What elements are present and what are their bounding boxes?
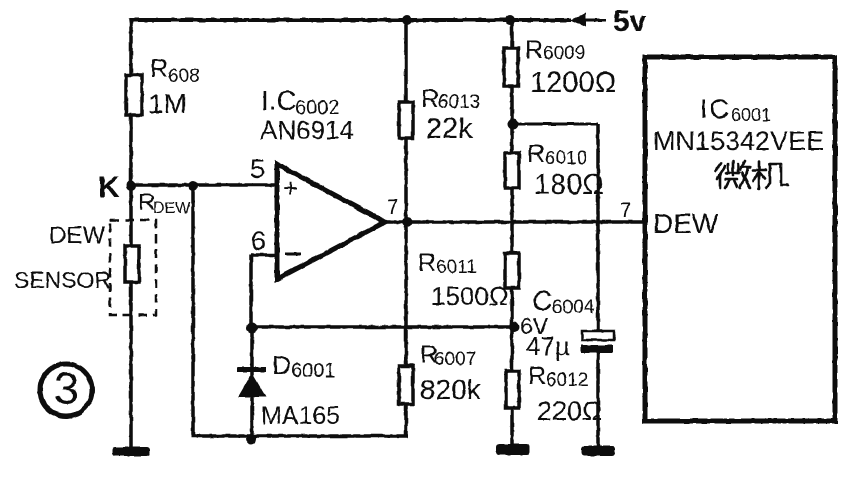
svg-text:5v: 5v <box>613 5 647 38</box>
svg-text:47µ: 47µ <box>526 331 570 361</box>
svg-text:3: 3 <box>54 363 79 414</box>
svg-text:220Ω: 220Ω <box>537 396 602 426</box>
svg-text:R: R <box>525 36 543 64</box>
svg-text:6: 6 <box>251 226 266 256</box>
svg-text:7: 7 <box>620 199 632 222</box>
svg-text:+: + <box>283 173 298 203</box>
svg-text:820k: 820k <box>420 374 482 405</box>
svg-text:1200Ω: 1200Ω <box>530 67 616 99</box>
svg-text:I.C: I.C <box>261 85 297 116</box>
svg-text:6004: 6004 <box>552 297 595 318</box>
svg-text:6009: 6009 <box>543 43 585 64</box>
svg-text:IC: IC <box>700 94 731 124</box>
svg-text:D: D <box>272 350 291 380</box>
svg-text:MN15342VEE: MN15342VEE <box>653 126 824 156</box>
svg-text:C: C <box>532 285 552 316</box>
svg-text:6001: 6001 <box>731 105 771 125</box>
svg-text:DEW: DEW <box>153 200 191 217</box>
svg-text:6012: 6012 <box>546 370 588 391</box>
svg-text:1500Ω: 1500Ω <box>431 281 508 311</box>
svg-text:22k: 22k <box>426 113 473 145</box>
svg-text:R: R <box>528 362 546 390</box>
svg-text:MA165: MA165 <box>261 402 340 430</box>
svg-text:R: R <box>527 140 545 168</box>
svg-text:R: R <box>421 85 439 113</box>
svg-text:1M: 1M <box>148 88 187 119</box>
svg-text:R: R <box>150 55 168 83</box>
svg-text:K: K <box>98 171 120 204</box>
svg-text:6013: 6013 <box>438 92 480 113</box>
svg-text:180Ω: 180Ω <box>534 169 604 201</box>
svg-text:DEW: DEW <box>49 222 105 249</box>
svg-text:5: 5 <box>250 154 265 184</box>
svg-text:6007: 6007 <box>434 349 476 370</box>
svg-text:6010: 6010 <box>545 148 587 169</box>
svg-text:608: 608 <box>168 66 200 87</box>
svg-text:6001: 6001 <box>291 360 336 382</box>
svg-text:7: 7 <box>387 196 399 219</box>
svg-text:SENSOR: SENSOR <box>14 267 111 293</box>
svg-text:AN6914: AN6914 <box>260 115 354 145</box>
svg-text:DEW: DEW <box>653 208 719 239</box>
svg-text:6011: 6011 <box>436 257 477 278</box>
svg-text:R: R <box>418 249 436 277</box>
